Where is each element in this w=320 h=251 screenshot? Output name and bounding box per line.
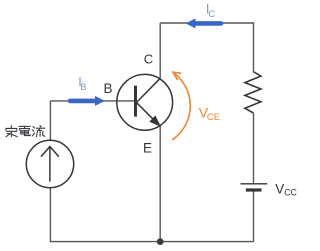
svg-text:B: B [80, 82, 86, 92]
svg-text:E: E [143, 141, 152, 156]
svg-text:V: V [275, 182, 284, 197]
svg-text:CC: CC [284, 188, 297, 198]
svg-text:CE: CE [207, 112, 220, 123]
svg-text:C: C [144, 51, 153, 66]
svg-text:C: C [208, 9, 215, 20]
svg-text:B: B [104, 81, 113, 96]
